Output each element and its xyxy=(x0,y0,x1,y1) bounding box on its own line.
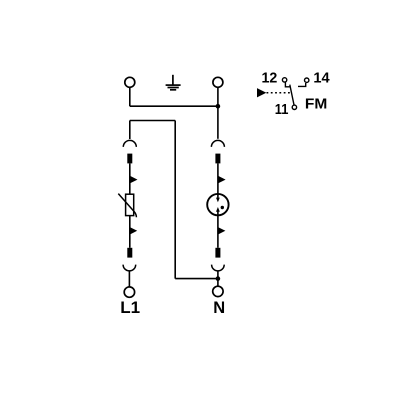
GDT dot xyxy=(221,206,224,209)
fuse bar right top xyxy=(215,154,220,164)
wire from right top circle down to arc xyxy=(217,88,219,139)
wire stub to left branch arc xyxy=(129,121,131,140)
FM hook under 12 xyxy=(285,82,290,87)
ground xyxy=(166,75,181,90)
gas discharge tube U1 xyxy=(207,194,228,215)
svg-text:14: 14 xyxy=(313,70,330,86)
node junction bottom xyxy=(216,276,221,281)
wire middle vertical xyxy=(174,121,176,279)
wire bracket horizontal xyxy=(130,120,175,122)
wire left branch lower xyxy=(129,216,131,248)
FM contact circle 14 xyxy=(305,78,309,82)
GDT bottom electrode wire xyxy=(217,211,219,215)
GDT top electrode wire xyxy=(217,194,219,198)
FM dotted line xyxy=(267,92,291,94)
disconnect arc right top xyxy=(211,140,224,146)
node junction top xyxy=(216,104,221,109)
marker triangle right upper xyxy=(218,176,225,183)
wire horizontal top xyxy=(130,105,218,107)
varistor body xyxy=(126,194,134,215)
FM signal triangle xyxy=(257,88,266,97)
FM contact circle 12 xyxy=(282,78,286,82)
wire right branch lower xyxy=(217,215,219,248)
FM lever xyxy=(290,85,294,105)
wire tail right xyxy=(217,271,219,287)
GDT arrowhead down xyxy=(216,198,220,203)
wire right branch upper xyxy=(217,163,219,198)
svg-text:FM: FM xyxy=(305,96,327,112)
terminal circle PE top-left xyxy=(125,77,135,87)
fuse bar right bottom xyxy=(215,248,220,258)
disconnect arc left top xyxy=(123,140,136,146)
svg-text:L1: L1 xyxy=(120,298,140,317)
disconnect cup left bottom xyxy=(123,265,136,271)
GDT arrowhead up xyxy=(216,207,220,212)
varistor diagonal xyxy=(118,194,136,218)
marker triangle right lower xyxy=(218,227,225,234)
FM hook under 14 xyxy=(298,83,306,86)
wire tail left xyxy=(128,271,130,287)
disconnect cup right bottom xyxy=(212,265,225,271)
marker triangle left upper xyxy=(130,176,137,183)
wire from left top circle down xyxy=(129,88,131,107)
fuse bar left top xyxy=(127,154,132,164)
terminal circle N xyxy=(213,286,223,296)
svg-text:12: 12 xyxy=(262,70,278,86)
wire left branch upper xyxy=(129,163,131,194)
terminal circle L1 xyxy=(124,287,134,297)
terminal circle top-right xyxy=(213,77,223,87)
FM contact circle 11 xyxy=(292,105,296,109)
svg-text:N: N xyxy=(213,298,225,317)
fuse bar left bottom xyxy=(127,248,132,258)
marker triangle left lower xyxy=(130,227,137,234)
svg-text:11: 11 xyxy=(275,102,289,118)
wire bottom horizontal xyxy=(175,278,218,280)
